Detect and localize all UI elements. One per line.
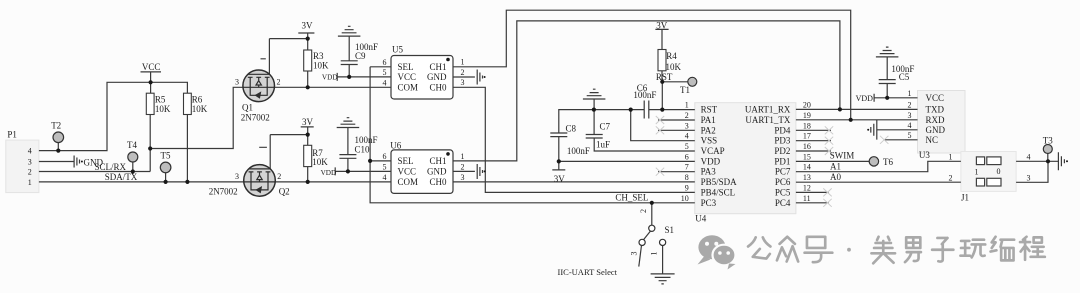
- svg-text:5: 5: [685, 142, 689, 151]
- svg-text:6: 6: [383, 58, 387, 67]
- svg-text:GND: GND: [427, 72, 447, 82]
- svg-text:SDA/TX: SDA/TX: [105, 172, 138, 182]
- svg-text:VSS: VSS: [701, 136, 718, 146]
- svg-text:3: 3: [235, 78, 239, 87]
- svg-text:SCL/RX: SCL/RX: [95, 162, 127, 172]
- svg-text:GND: GND: [926, 125, 946, 135]
- svg-text:2: 2: [949, 173, 953, 182]
- svg-text:R5: R5: [155, 95, 166, 105]
- svg-text:PA1: PA1: [701, 115, 716, 125]
- svg-text:16: 16: [803, 142, 811, 151]
- svg-text:VDD: VDD: [322, 73, 338, 81]
- svg-text:2N7002: 2N7002: [241, 113, 270, 123]
- svg-text:10K: 10K: [312, 157, 328, 167]
- svg-text:R4: R4: [666, 51, 677, 61]
- svg-text:T2: T2: [51, 120, 61, 130]
- svg-text:1: 1: [975, 167, 979, 176]
- svg-text:8: 8: [685, 173, 689, 182]
- svg-text:PA2: PA2: [701, 125, 716, 135]
- svg-text:A1: A1: [830, 162, 841, 172]
- svg-text:2N7002: 2N7002: [209, 186, 238, 196]
- svg-text:VCC: VCC: [926, 93, 945, 103]
- svg-text:2: 2: [277, 172, 281, 181]
- svg-text:VCAP: VCAP: [701, 146, 725, 156]
- svg-text:T3: T3: [1043, 136, 1053, 146]
- svg-text:R6: R6: [192, 95, 203, 105]
- svg-text:2: 2: [461, 162, 465, 171]
- svg-text:6: 6: [685, 152, 689, 161]
- svg-text:1: 1: [949, 152, 953, 161]
- svg-text:PC7: PC7: [775, 167, 791, 177]
- svg-text:18: 18: [803, 121, 811, 130]
- svg-text:SWIM: SWIM: [830, 151, 855, 161]
- svg-text:5: 5: [383, 163, 387, 172]
- svg-text:SEL: SEL: [398, 156, 414, 166]
- svg-text:VCC: VCC: [142, 62, 161, 72]
- svg-text:VDD: VDD: [856, 94, 874, 103]
- svg-text:14: 14: [803, 163, 811, 172]
- svg-text:10K: 10K: [155, 104, 171, 114]
- svg-text:3: 3: [461, 173, 465, 182]
- svg-text:SEL: SEL: [398, 62, 414, 72]
- svg-text:4: 4: [383, 79, 387, 88]
- svg-text:17: 17: [803, 132, 811, 141]
- svg-text:COM: COM: [398, 83, 419, 93]
- svg-text:4: 4: [685, 132, 689, 141]
- svg-text:PC6: PC6: [775, 177, 791, 187]
- svg-text:2: 2: [461, 68, 465, 77]
- svg-text:CH0: CH0: [429, 177, 447, 187]
- svg-text:IIC-UART Select: IIC-UART Select: [558, 267, 618, 277]
- svg-text:T4: T4: [127, 140, 137, 150]
- svg-text:VCC: VCC: [398, 72, 417, 82]
- svg-text:2: 2: [639, 209, 648, 213]
- svg-text:3: 3: [28, 157, 32, 166]
- svg-text:RST: RST: [656, 72, 673, 82]
- svg-text:7: 7: [685, 163, 689, 172]
- svg-text:3: 3: [235, 172, 239, 181]
- svg-text:1: 1: [685, 101, 689, 110]
- svg-text:VCC: VCC: [398, 166, 417, 176]
- svg-text:3: 3: [685, 121, 689, 130]
- svg-text:C7: C7: [600, 121, 611, 131]
- svg-text:20: 20: [803, 100, 811, 109]
- svg-text:CH1: CH1: [429, 62, 446, 72]
- svg-text:2: 2: [908, 100, 912, 109]
- svg-text:S1: S1: [665, 225, 675, 235]
- svg-text:UART1_TX: UART1_TX: [745, 115, 790, 125]
- svg-text:5: 5: [908, 131, 912, 140]
- svg-text:RXD: RXD: [926, 115, 946, 125]
- svg-text:3V: 3V: [656, 20, 668, 30]
- svg-text:CH1: CH1: [429, 156, 446, 166]
- svg-text:5: 5: [383, 68, 387, 77]
- svg-text:100nF: 100nF: [567, 146, 590, 156]
- svg-text:U4: U4: [695, 214, 706, 224]
- svg-text:1: 1: [650, 252, 659, 256]
- svg-text:10K: 10K: [666, 62, 682, 72]
- svg-text:3V: 3V: [302, 117, 314, 127]
- svg-text:UART1_RX: UART1_RX: [745, 105, 791, 115]
- svg-text:2: 2: [685, 111, 689, 120]
- svg-text:T1: T1: [680, 85, 690, 95]
- svg-text:4: 4: [1027, 152, 1031, 161]
- svg-text:3: 3: [461, 78, 465, 87]
- svg-text:R3: R3: [313, 51, 324, 61]
- svg-text:100nF: 100nF: [355, 135, 378, 145]
- svg-text:1: 1: [908, 89, 912, 98]
- svg-text:PD3: PD3: [774, 136, 791, 146]
- svg-text:C5: C5: [899, 72, 910, 82]
- svg-text:PD2: PD2: [774, 146, 790, 156]
- svg-text:PB5/SDA: PB5/SDA: [701, 177, 738, 187]
- svg-text:PC5: PC5: [775, 187, 791, 197]
- svg-text:3V: 3V: [554, 174, 566, 184]
- svg-text:P1: P1: [7, 129, 17, 139]
- svg-text:3: 3: [1027, 173, 1031, 182]
- svg-text:PD1: PD1: [774, 156, 790, 166]
- svg-text:4: 4: [908, 121, 912, 130]
- svg-text:1: 1: [461, 58, 465, 67]
- svg-text:GND: GND: [427, 166, 447, 176]
- svg-text:100nF: 100nF: [633, 90, 656, 100]
- svg-text:C9: C9: [355, 51, 366, 61]
- svg-text:11: 11: [803, 194, 811, 203]
- svg-text:CH0: CH0: [429, 83, 447, 93]
- svg-text:3: 3: [908, 111, 912, 120]
- svg-text:J1: J1: [961, 192, 969, 202]
- svg-text:13: 13: [803, 173, 811, 182]
- svg-text:10: 10: [681, 194, 689, 203]
- svg-text:PA3: PA3: [701, 167, 717, 177]
- svg-text:PC4: PC4: [775, 198, 791, 208]
- svg-text:1uF: 1uF: [596, 140, 610, 150]
- svg-text:CH_SEL: CH_SEL: [615, 193, 648, 203]
- svg-text:9: 9: [685, 183, 689, 192]
- svg-text:4: 4: [28, 146, 32, 155]
- svg-text:TXD: TXD: [926, 104, 945, 114]
- svg-text:COM: COM: [398, 177, 419, 187]
- svg-text:U5: U5: [392, 45, 403, 55]
- svg-text:VDD: VDD: [701, 156, 721, 166]
- svg-text:C10: C10: [355, 145, 371, 155]
- svg-text:Q2: Q2: [279, 186, 290, 196]
- svg-text:1: 1: [461, 152, 465, 161]
- svg-text:Q1: Q1: [242, 102, 253, 112]
- svg-text:C8: C8: [566, 124, 577, 134]
- svg-text:6: 6: [383, 152, 387, 161]
- svg-text:VDD: VDD: [321, 169, 337, 177]
- svg-text:12: 12: [803, 183, 811, 192]
- svg-text:U6: U6: [390, 140, 401, 150]
- svg-text:A0: A0: [830, 172, 841, 182]
- svg-text:T6: T6: [883, 157, 893, 167]
- svg-text:10K: 10K: [192, 104, 208, 114]
- svg-text:T5: T5: [161, 151, 171, 161]
- svg-text:3: 3: [630, 252, 639, 256]
- svg-text:0: 0: [997, 167, 1001, 176]
- svg-text:4: 4: [383, 173, 387, 182]
- svg-text:10K: 10K: [313, 61, 329, 71]
- svg-text:2: 2: [28, 167, 32, 176]
- svg-text:19: 19: [803, 111, 811, 120]
- svg-text:NC: NC: [926, 135, 939, 145]
- svg-text:U3: U3: [919, 150, 930, 160]
- svg-text:PD4: PD4: [774, 125, 791, 135]
- svg-text:1: 1: [28, 178, 32, 187]
- svg-text:15: 15: [803, 152, 811, 161]
- svg-text:RST: RST: [701, 105, 718, 115]
- svg-text:PB4/SCL: PB4/SCL: [701, 187, 736, 197]
- svg-text:3V: 3V: [302, 21, 314, 31]
- svg-text:2: 2: [277, 78, 281, 87]
- svg-text:PC3: PC3: [701, 198, 717, 208]
